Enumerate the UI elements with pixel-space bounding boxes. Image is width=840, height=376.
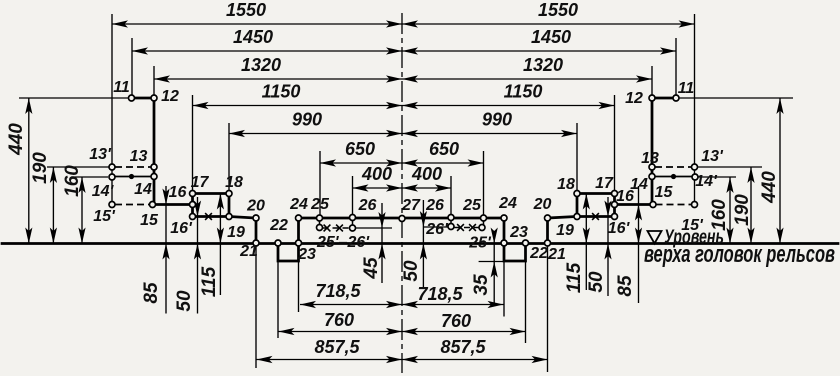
node 13 right	[649, 164, 655, 170]
node 16' right	[612, 214, 618, 220]
svg-text:400: 400	[411, 164, 442, 184]
svg-text:857,5: 857,5	[440, 337, 486, 357]
extension line below point 22 right	[525, 261, 527, 343]
x mark on 16'-19 line left	[205, 213, 212, 220]
x marks on 25'-26' left	[324, 225, 331, 232]
svg-text:50: 50	[401, 260, 422, 282]
profile line 12-13-14-15 left	[153, 98, 156, 205]
dimension 440 right	[779, 98, 781, 244]
node 13' right	[692, 164, 698, 170]
svg-text:23: 23	[297, 246, 316, 263]
dimension 440 left	[28, 98, 30, 244]
svg-text:25: 25	[310, 196, 330, 213]
extension line below point 21 right	[547, 246, 549, 372]
svg-text:400: 400	[361, 164, 392, 184]
node 20 left	[253, 215, 259, 221]
svg-text:25': 25'	[468, 235, 492, 252]
x marks on 26'-25' right	[457, 224, 464, 231]
dimension 760 right	[402, 331, 526, 333]
svg-text:1550: 1550	[226, 0, 266, 20]
node 26' right	[448, 224, 454, 230]
extension line 1150 to point 17 left	[192, 95, 194, 191]
node 18 left	[226, 191, 232, 197]
svg-text:11: 11	[678, 80, 695, 97]
svg-text:1150: 1150	[262, 82, 301, 102]
svg-text:650: 650	[345, 139, 375, 159]
node 21 right	[545, 240, 551, 246]
dimension 400 right	[402, 187, 451, 189]
dimension 1550 left	[112, 23, 402, 25]
profile line 24-27 top centre right	[402, 217, 504, 220]
svg-text:85: 85	[615, 275, 636, 297]
svg-text:190: 190	[732, 194, 753, 226]
profile line 17-18 left	[193, 192, 230, 195]
svg-text:верха головок рельсов: верха головок рельсов	[644, 241, 835, 268]
svg-text:25: 25	[462, 197, 482, 214]
svg-text:50: 50	[174, 290, 195, 312]
profile notch 22-23 right	[504, 244, 526, 262]
node 25 left	[317, 215, 323, 221]
dimension 760 left	[279, 331, 403, 333]
profile line 17-16-16' right	[613, 194, 616, 217]
extension line 14' level right	[697, 176, 736, 178]
profile line 11-12 left	[132, 97, 155, 100]
svg-text:760: 760	[441, 311, 471, 331]
svg-text:17: 17	[191, 174, 210, 191]
node 15' right	[692, 202, 698, 208]
node 11 left	[129, 95, 135, 101]
svg-text:45: 45	[361, 257, 382, 280]
extension line 400 to point 26 left	[352, 176, 354, 215]
profile line 18-19 left	[228, 194, 231, 217]
svg-text:19: 19	[227, 224, 245, 241]
extension line 990 to point 18 right	[576, 123, 578, 191]
dimension 1450 left	[132, 50, 402, 52]
dimension 650 right	[402, 162, 484, 164]
node 17 right	[612, 191, 618, 197]
node 12 right	[649, 95, 655, 101]
node 14' right	[692, 174, 698, 180]
svg-text:1450: 1450	[531, 27, 571, 47]
svg-text:21: 21	[547, 246, 566, 263]
profile line 24-27 top centre left	[299, 217, 403, 220]
node 25 right	[481, 215, 487, 221]
profile line 20-21 right	[546, 218, 549, 243]
centre dot on 14'-14 right	[671, 174, 676, 179]
line 14'-14 right	[655, 176, 692, 178]
node 16 left	[190, 202, 196, 208]
extension line at point 11 level far right	[677, 97, 793, 99]
centre axis line	[401, 13, 403, 373]
svg-text:17: 17	[595, 175, 614, 192]
node 23 left	[296, 240, 302, 246]
svg-text:19: 19	[556, 222, 574, 239]
dashed line 13'-13 right	[655, 166, 692, 168]
dimension 1150 left	[193, 105, 403, 107]
line 14'-14 left	[115, 176, 151, 178]
profile line 15-16 right	[615, 203, 654, 206]
svg-text:18: 18	[225, 174, 243, 191]
svg-text:50: 50	[586, 271, 607, 293]
svg-text:650: 650	[429, 139, 459, 159]
extension line 13' level left	[47, 166, 109, 168]
dimension 1550 right	[402, 23, 695, 25]
extension line 1150 to point 17 right	[614, 95, 616, 191]
dimension 50 left	[197, 197, 199, 314]
link 26-26' right	[450, 221, 452, 224]
node 17 left	[190, 191, 196, 197]
svg-text:1320: 1320	[241, 55, 281, 75]
svg-text:24: 24	[498, 195, 517, 212]
svg-text:115: 115	[564, 262, 585, 293]
svg-text:24: 24	[289, 196, 308, 213]
node 14 left	[151, 174, 157, 180]
dimension 115 right	[585, 194, 587, 291]
dashed line 25'-26' left	[323, 227, 350, 229]
dimension 190 left	[52, 167, 54, 244]
svg-text:990: 990	[482, 110, 512, 130]
svg-text:16: 16	[169, 184, 187, 201]
dashed line 26'-25' right	[454, 227, 479, 229]
profile line 17-16-16' left	[191, 194, 194, 217]
svg-text:25'–26': 25'–26'	[316, 234, 370, 251]
extension line 1320 above point 12 left	[153, 66, 155, 95]
profile line 20-21 left	[255, 218, 258, 243]
node 12 left	[151, 95, 157, 101]
extension line 14' level left	[71, 176, 108, 178]
svg-text:15': 15'	[93, 208, 116, 225]
profile line 23-24 left	[297, 218, 300, 243]
dimension 160 right	[729, 177, 731, 244]
node 22 right	[523, 240, 529, 246]
node 16' left	[190, 214, 196, 220]
extension line 650 to point 25 left	[319, 151, 321, 215]
dimension 1320 right	[402, 78, 652, 80]
dimension 50 right of centre	[422, 200, 424, 287]
node 20 right	[545, 215, 551, 221]
node 15' left	[109, 202, 115, 208]
svg-text:1320: 1320	[523, 55, 563, 75]
svg-text:1450: 1450	[233, 27, 273, 47]
svg-text:12: 12	[625, 90, 643, 107]
svg-text:718,5: 718,5	[315, 281, 361, 301]
node 25' left	[317, 225, 323, 231]
node 26' left	[350, 225, 356, 231]
profile line 16'-19 left	[193, 215, 230, 218]
node 22 left	[275, 240, 281, 246]
node 18 right	[574, 191, 580, 197]
dimension 650 left	[320, 162, 402, 164]
dashed line 15'-15 left	[115, 204, 150, 206]
dimension 85 right	[638, 186, 640, 303]
thin line 26' toward centre left	[356, 227, 393, 229]
svg-text:20: 20	[533, 196, 552, 213]
node 14 right	[649, 174, 655, 180]
svg-text:190: 190	[30, 152, 51, 184]
svg-text:13': 13'	[701, 148, 724, 165]
profile line 17-18 right	[577, 192, 615, 195]
dimension 400 left	[353, 187, 403, 189]
svg-text:14': 14'	[695, 173, 718, 190]
node 25' right	[479, 225, 485, 231]
link 25-25' left	[319, 221, 321, 225]
extension line 1550/13' right	[694, 14, 696, 205]
profile line 19-20 right	[548, 217, 578, 219]
svg-text:440: 440	[6, 123, 27, 156]
profile line 12-13-14-15 right	[651, 98, 654, 205]
dimension 190 right	[750, 167, 752, 244]
svg-text:990: 990	[292, 110, 322, 130]
extension line notch bottom right	[479, 261, 503, 263]
dimension 1450 right	[402, 50, 676, 52]
dashed line 13'-13 left	[115, 166, 151, 168]
profile line 23-24 right	[503, 218, 506, 243]
link 26-26' left	[352, 221, 354, 226]
dimension 160 left	[81, 177, 83, 244]
profile line 15-16 left	[153, 203, 193, 206]
extension line 1450 above point 11 left	[131, 38, 133, 95]
svg-text:26: 26	[358, 197, 377, 214]
thin line 26' toward centre right	[423, 226, 448, 228]
svg-text:14: 14	[134, 181, 152, 198]
svg-text:11: 11	[113, 79, 130, 96]
svg-text:115: 115	[199, 266, 220, 297]
extension line 1450 above point 11 right	[675, 38, 677, 95]
svg-text:1150: 1150	[504, 82, 543, 102]
dimension 990 left	[229, 133, 402, 135]
dimension 718,5 right	[402, 304, 504, 306]
svg-text:12: 12	[161, 88, 179, 105]
node 13 left	[151, 164, 157, 170]
svg-text:440: 440	[759, 171, 780, 204]
dimension 857,5 right	[402, 359, 548, 361]
x mark on 16'-19 line right	[592, 213, 599, 220]
node 13' left	[109, 164, 115, 170]
node 14' left	[109, 174, 115, 180]
profile notch 22-23 left	[278, 244, 299, 262]
rail head level baseline	[2, 242, 838, 245]
svg-text:1550: 1550	[538, 0, 578, 20]
svg-text:16': 16'	[170, 220, 193, 237]
extension line below point 23 right	[503, 261, 505, 317]
extension line 990 to point 18 left	[228, 123, 230, 191]
svg-text:13: 13	[130, 148, 148, 165]
node 19 right	[574, 214, 580, 220]
node 27 centre	[399, 216, 405, 222]
node 15 left	[150, 202, 156, 208]
svg-text:13: 13	[641, 150, 659, 167]
centre dot on 14'-14 left	[129, 174, 134, 179]
svg-text:15: 15	[140, 212, 159, 229]
svg-text:14': 14'	[92, 183, 115, 200]
node 11 right	[673, 95, 679, 101]
link 25-25' right	[483, 221, 485, 225]
svg-text:85: 85	[141, 282, 162, 304]
svg-text:22: 22	[269, 217, 288, 234]
dimension 1320 left	[154, 78, 402, 80]
extension line 13' level right	[697, 166, 762, 168]
node 26 right	[448, 215, 454, 221]
svg-text:18: 18	[557, 176, 575, 193]
node 23 right	[501, 240, 507, 246]
extension line 650 to point 25 right	[483, 151, 485, 215]
extension line 1550/13' left	[111, 14, 113, 205]
extension line below point 21 left	[255, 246, 257, 368]
svg-text:27: 27	[401, 197, 421, 214]
extension line at point 11 level far left	[19, 97, 131, 99]
node 16 right	[612, 202, 618, 208]
svg-text:857,5: 857,5	[314, 337, 360, 357]
node 24 right	[501, 215, 507, 221]
extension line below point 22 left	[277, 261, 279, 338]
svg-text:20: 20	[246, 198, 265, 215]
svg-text:15: 15	[655, 184, 674, 201]
dimension 990 right	[402, 133, 577, 135]
node 15 right	[650, 202, 656, 208]
dimension 85 left	[165, 186, 167, 314]
dimension 35 right	[493, 232, 495, 305]
dimension 1150 right	[402, 105, 615, 107]
svg-text:23: 23	[509, 224, 528, 241]
dimension 45 left of centre	[381, 203, 383, 283]
dimension 50 right	[607, 197, 609, 296]
svg-text:160: 160	[62, 165, 83, 197]
svg-text:35: 35	[471, 274, 492, 296]
dashed line 15'-15 right	[656, 204, 692, 206]
extension line 1320 above point 12 right	[651, 66, 653, 95]
svg-text:14: 14	[630, 176, 648, 193]
node 21 left	[253, 240, 259, 246]
svg-text:22: 22	[529, 245, 548, 262]
dimension 115 left	[219, 194, 221, 296]
profile line 11-12 right	[652, 97, 676, 100]
rail level symbol triangle	[648, 231, 662, 244]
svg-text:26: 26	[425, 197, 444, 214]
svg-text:718,5: 718,5	[417, 284, 463, 304]
svg-text:21: 21	[239, 243, 258, 260]
profile line 18-19 right	[576, 194, 579, 217]
profile line 16'-19 right	[577, 215, 615, 218]
node 19 left	[226, 214, 232, 220]
extension line below point 23 left	[298, 261, 300, 312]
svg-text:16': 16'	[608, 220, 631, 237]
node 26 left	[350, 215, 356, 221]
node 24 left	[296, 215, 302, 221]
dimension 718,5 left	[300, 304, 402, 306]
svg-text:13': 13'	[89, 146, 112, 163]
extension line 400 to point 26 right	[450, 176, 452, 215]
svg-text:760: 760	[324, 310, 354, 330]
profile line 19-20 left	[229, 217, 256, 219]
dimension 857,5 left	[257, 359, 403, 361]
svg-text:26': 26'	[425, 221, 449, 238]
